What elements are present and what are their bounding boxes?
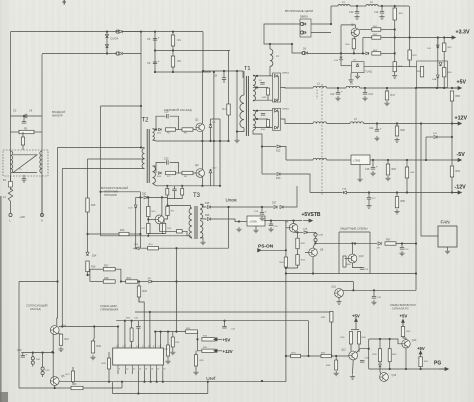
junction c11 — [381, 5, 383, 7]
svg-text:D1B: D1B — [342, 188, 347, 190]
svg-text:ФИЛЬТР: ФИЛЬТР — [52, 114, 63, 118]
junction pin2 — [160, 331, 162, 333]
wire aux left — [135, 197, 137, 248]
junction tap D — [256, 110, 258, 112]
resistor R40b — [388, 349, 391, 362]
junction 3v3 c — [443, 36, 445, 38]
svg-text:R38: R38 — [326, 365, 331, 367]
junction loop A — [140, 105, 142, 107]
svg-text:10: 10 — [126, 368, 129, 370]
wire pin13 drop — [137, 371, 139, 394]
wire q10 base — [345, 258, 349, 260]
junction r53 drop — [362, 52, 364, 54]
wire u3 gnd — [357, 73, 359, 74]
svg-text:+: + — [265, 210, 267, 214]
wire Q1 collector — [201, 71, 203, 123]
wire r62 stub — [396, 124, 398, 127]
wire rail2 right — [197, 332, 199, 340]
svg-text:Uпом: Uпом — [226, 198, 237, 203]
svg-text:15: 15 — [157, 368, 160, 370]
wire D4 row — [42, 53, 117, 55]
rectifier DBR02 box — [273, 73, 281, 102]
ground R29 — [90, 355, 95, 360]
svg-text:D22: D22 — [142, 193, 147, 196]
junction q11 base — [352, 289, 354, 291]
junction r47 — [386, 87, 388, 89]
wire match bottom — [19, 387, 71, 389]
junction bus2 drop — [137, 392, 139, 394]
svg-text:R10: R10 — [152, 211, 157, 213]
svg-text:+5V: +5V — [223, 337, 231, 342]
wire u3 out up — [410, 66, 417, 68]
transistor Q6 — [289, 224, 298, 233]
wire aux rail corner — [139, 192, 141, 248]
T1 primary winding — [240, 95, 244, 128]
svg-text:D6: D6 — [303, 48, 307, 51]
arrow -5V — [452, 158, 461, 161]
wire q3 base — [148, 218, 155, 220]
wire d28 out — [307, 231, 316, 234]
wire fuse to terminal — [10, 201, 12, 213]
capacitor C3 — [22, 122, 26, 124]
junction tap3 row — [61, 325, 63, 327]
svg-text:R1: R1 — [178, 38, 182, 42]
wire fb down — [176, 248, 178, 331]
resistor R47 — [385, 91, 388, 100]
wire d13 out — [280, 174, 310, 193]
wire q8 top — [313, 242, 316, 249]
svg-text:D2B: D2B — [303, 228, 308, 230]
ground T1 shield — [234, 138, 239, 143]
wire Q1 emitter — [201, 131, 203, 141]
wire r6b stub — [181, 186, 183, 189]
resistor R29 — [91, 341, 94, 353]
svg-text:T3: T3 — [193, 193, 201, 199]
svg-text:U3: U3 — [353, 60, 357, 62]
svg-text:R30: R30 — [200, 360, 205, 362]
wire c21b stub — [174, 186, 176, 189]
wire cap C5 branch — [154, 32, 156, 72]
wire prot out — [370, 273, 416, 275]
wire match to bus — [121, 382, 123, 388]
svg-text:D23: D23 — [129, 208, 134, 210]
wire bridge vertical — [106, 32, 108, 54]
ground 7805 in — [236, 227, 241, 232]
IC U2 7805 box — [247, 216, 265, 226]
choke T4 dashed box — [3, 150, 48, 176]
svg-text:C13: C13 — [369, 93, 374, 96]
svg-text:L2: L2 — [370, 1, 373, 4]
capacitor C9a — [260, 83, 264, 85]
svg-text:R7: R7 — [167, 176, 171, 178]
svg-text:R41: R41 — [424, 361, 429, 363]
svg-text:R39: R39 — [372, 354, 377, 356]
junction q5 down — [54, 387, 56, 389]
resistor R10 — [147, 206, 150, 216]
svg-text:+5V: +5V — [417, 346, 425, 351]
svg-text:+12V: +12V — [223, 349, 233, 354]
capacitor C1 — [22, 179, 26, 181]
resistor R49 — [352, 39, 355, 49]
wire bottom bus2 — [113, 393, 208, 395]
junction r54 right — [394, 52, 396, 54]
ground C10 — [354, 15, 359, 20]
fuse F1 — [8, 188, 12, 201]
svg-text:R18: R18 — [104, 277, 109, 280]
capacitor C28 — [269, 224, 273, 226]
wire loop to r19b — [121, 281, 126, 283]
capacitor C13 — [363, 93, 367, 95]
svg-text:+: + — [380, 127, 382, 131]
junction Q2 emitter — [201, 185, 203, 187]
capacitor C5 — [153, 39, 157, 41]
resistor R6b — [181, 189, 184, 196]
resistor R27 — [167, 345, 170, 356]
resistor R15 — [86, 198, 89, 212]
wire t3 coupling — [167, 195, 182, 199]
resistor R46s — [267, 120, 270, 128]
ground C17 — [366, 204, 371, 209]
wire Q2 emitter — [201, 177, 203, 186]
inductor L1 — [338, 5, 350, 7]
wire r17 loop2 — [89, 269, 91, 281]
diode D6 — [305, 52, 308, 55]
FAN box — [438, 226, 457, 247]
junction emitter rail a — [209, 140, 211, 142]
capacitor C7 snubber — [222, 78, 226, 80]
wire aux raw — [261, 207, 263, 212]
wire AC line top rail — [11, 31, 204, 33]
junction pin7 — [131, 320, 133, 322]
wire r5a gnd — [394, 72, 396, 74]
svg-text:T1: T1 — [244, 66, 251, 72]
junction c28 — [270, 220, 272, 222]
svg-text:FAN: FAN — [441, 220, 450, 225]
wire fan feed — [421, 124, 438, 237]
wire pson vert — [285, 274, 287, 382]
resistor R31 — [202, 349, 215, 352]
wire match feed — [19, 281, 58, 283]
wire d32 drop — [352, 282, 354, 291]
capacitor C21b — [172, 189, 176, 191]
svg-text:C28: C28 — [274, 226, 279, 228]
wire dbr02 int — [277, 76, 279, 100]
junction 12v r64 — [451, 122, 453, 124]
choke winding left — [11, 151, 13, 173]
wire cap midpoint — [155, 50, 230, 52]
wire bottom bus1 — [113, 381, 286, 383]
wire r5b stub — [166, 186, 168, 189]
diode D07 — [136, 247, 139, 250]
wire primary loop A — [101, 105, 142, 107]
wire r23 stub — [72, 367, 74, 371]
svg-text:D26: D26 — [205, 214, 210, 217]
wire c21b bot — [174, 191, 176, 199]
scan edge bottom left — [0, 392, 8, 402]
wire L4 bottom — [269, 66, 271, 76]
resistor R25 — [186, 330, 198, 333]
wire d21 row — [426, 136, 433, 138]
resistor R11 — [147, 223, 150, 233]
wire x87 bot — [87, 272, 89, 275]
junction r40b top — [389, 338, 391, 340]
junction dbr03 out — [330, 23, 332, 25]
resistor R60 — [443, 67, 446, 77]
diode DBR01 a — [275, 109, 278, 112]
junction pin3 — [154, 331, 156, 333]
svg-text:R20: R20 — [143, 290, 148, 293]
svg-text:R28: R28 — [175, 342, 180, 344]
wire drive lower2 — [176, 172, 183, 174]
IC U1 top pins — [118, 344, 161, 348]
svg-text:Q15: Q15 — [392, 374, 397, 377]
resistor R4 — [227, 104, 230, 115]
diode DBR03 a — [303, 23, 306, 26]
junction L4 top — [269, 43, 271, 45]
wire pin7 col b — [131, 341, 133, 348]
resistor R3 — [19, 130, 34, 133]
terminal D6 — [302, 51, 305, 54]
svg-text:СИГНАЛА PG: СИГНАЛА PG — [392, 306, 409, 310]
diode D16 zener — [340, 57, 343, 60]
junction aux rail — [99, 191, 101, 193]
wire sec tap B — [253, 87, 268, 89]
svg-text:R60: R60 — [448, 72, 453, 74]
wire d12 in — [262, 146, 276, 148]
wire pin7 col — [131, 321, 133, 328]
wire match box left — [18, 282, 20, 389]
wire dbr03 right — [311, 6, 331, 24]
junction r33v bot — [330, 355, 332, 357]
wire +12v rail2 — [327, 123, 350, 125]
wire r49 top — [354, 37, 355, 39]
wire C19 loop right — [170, 116, 179, 129]
resistor R30 — [195, 355, 198, 366]
diode D30 a — [31, 357, 34, 360]
junction c29 — [261, 206, 263, 208]
resistor R54 — [372, 52, 381, 55]
svg-text:Q4: Q4 — [62, 324, 66, 328]
junction q3 coll — [161, 196, 163, 198]
ground R47 — [384, 101, 389, 106]
svg-text:C16: C16 — [365, 168, 370, 171]
wire T2 tap2 — [88, 158, 145, 160]
svg-text:DBR02: DBR02 — [282, 73, 290, 75]
junction 3v3 b — [437, 36, 439, 38]
resistor R21 — [59, 334, 62, 345]
arrow +5V left — [214, 338, 222, 341]
wire AC line left rail down — [10, 32, 12, 190]
diode D4 — [119, 52, 122, 55]
junction c30 — [223, 320, 225, 322]
resistor R28 — [171, 337, 174, 347]
resistor R58 — [450, 91, 453, 101]
svg-text:R26: R26 — [126, 318, 131, 320]
resistor R52 — [372, 28, 381, 31]
junction c10 — [356, 5, 358, 7]
svg-text:R6: R6 — [184, 133, 188, 135]
svg-text:+: + — [26, 353, 28, 357]
svg-text:L4: L4 — [350, 83, 353, 86]
terminal L — [9, 213, 12, 216]
junction match feed — [56, 280, 58, 282]
junction prot c22 — [401, 242, 403, 244]
T1 secondary upper — [253, 75, 256, 101]
resistor R44 — [296, 255, 299, 266]
junction bridge top — [106, 31, 108, 33]
wire +12v rail — [290, 123, 313, 125]
wire q10 emitter — [353, 263, 363, 268]
resistor R19 — [103, 280, 115, 283]
svg-text:СОГЛАСУЮЩИЙ: СОГЛАСУЮЩИЙ — [26, 304, 47, 308]
wire r9 r12 link — [164, 216, 167, 224]
svg-text:PG: PG — [434, 361, 441, 367]
svg-text:R67: R67 — [386, 239, 391, 242]
svg-text:R50: R50 — [399, 13, 404, 15]
wire d21 stub — [425, 137, 427, 160]
wire prot box left — [338, 232, 340, 274]
resistor R16 — [86, 261, 89, 272]
wire prot box right — [369, 232, 371, 274]
wire aux bottom drop — [147, 234, 149, 236]
resistor R64 — [450, 166, 453, 177]
ground R62 — [394, 138, 399, 143]
wire r58 down — [451, 101, 453, 124]
svg-text:D21: D21 — [433, 133, 438, 135]
wire pin6 col — [137, 321, 139, 327]
diode D06 — [159, 172, 162, 175]
wire r20 down — [138, 297, 140, 302]
capacitor C12 — [336, 93, 340, 95]
wire d31 tail — [42, 375, 44, 377]
wire 7805 in — [239, 221, 247, 223]
diode D4A zener — [436, 75, 439, 78]
diode D27b — [280, 206, 283, 209]
junction r66b — [108, 381, 110, 383]
ground C28 — [268, 227, 273, 232]
rectifier DBR03 box — [300, 19, 311, 37]
svg-text:КАСКАД: КАСКАД — [30, 307, 41, 311]
wire d13 in — [262, 173, 276, 175]
svg-text:C32: C32 — [377, 297, 382, 299]
wire d30 link — [32, 360, 34, 361]
svg-text:R8: R8 — [184, 176, 188, 178]
svg-text:R9: R9 — [171, 211, 175, 213]
wire 7805 out — [264, 220, 303, 222]
junction aux d22 — [139, 196, 141, 198]
wire 3v3 rail2 — [350, 5, 366, 7]
wire T2 tap3 — [62, 168, 144, 170]
junction filter caps — [23, 115, 25, 117]
diode D05 — [159, 128, 162, 131]
wire D6 branch — [292, 44, 303, 53]
junction tap E — [256, 118, 258, 120]
junction r27 — [167, 331, 169, 333]
resistor R48s — [267, 88, 270, 95]
wire -12v rail2 — [347, 192, 459, 194]
junction center tap — [227, 140, 229, 142]
capacitor C22 — [400, 248, 404, 250]
wire r44 link — [297, 249, 299, 255]
svg-text:C29: C29 — [254, 211, 259, 213]
svg-text:C12: C12 — [330, 93, 335, 96]
wire r10 top — [147, 197, 149, 206]
wire q4 collector down — [340, 25, 342, 66]
wire +5v rail2 — [327, 87, 346, 89]
svg-text:DBR03: DBR03 — [300, 16, 308, 19]
wire d31 link — [42, 370, 44, 371]
transistor Q2 — [196, 169, 205, 178]
choke core dashed b — [316, 90, 318, 100]
diode D29 — [378, 242, 381, 245]
wire pin6 col b — [137, 328, 139, 348]
junction q10 up — [351, 242, 353, 244]
junction 5v a — [436, 87, 438, 89]
wire C1 stub top — [23, 175, 25, 179]
resistor R50 — [393, 8, 396, 20]
diode D10 — [209, 170, 212, 173]
junction Q1 collector — [202, 70, 204, 72]
wire q6 top — [293, 221, 295, 224]
junction r63 — [387, 159, 389, 161]
wire r53 left — [363, 37, 372, 39]
wire d33 link — [379, 362, 381, 364]
transistor Q11 — [335, 289, 344, 298]
IC U1 top pin numbers — [116, 346, 161, 348]
junction C6 bottom — [154, 71, 156, 73]
junction q6 chain — [296, 231, 298, 233]
terminal diode D3 anode — [116, 30, 119, 33]
ground R5A — [392, 74, 397, 79]
wire zener column — [210, 119, 212, 141]
svg-text:L7905: L7905 — [353, 159, 361, 163]
arrow +3.3V — [446, 36, 455, 39]
svg-text:D04: D04 — [134, 244, 139, 246]
wire prot row2 — [396, 243, 416, 245]
wire pin3 col — [154, 332, 156, 348]
arrow +5VSTB — [303, 219, 312, 222]
wire T2 primary bottom — [144, 162, 146, 164]
wire prot box top — [339, 231, 370, 233]
IC U5 7905 box — [351, 155, 370, 165]
wire d4a feed — [437, 38, 439, 75]
arrow PG — [439, 367, 448, 370]
wire r2b bot — [22, 145, 24, 150]
wire d12 out — [280, 147, 286, 161]
wire pwm top rail — [116, 320, 308, 322]
junction match bus — [121, 381, 123, 383]
svg-text:R46: R46 — [347, 264, 352, 266]
wire c10 stub — [356, 6, 358, 11]
resistor R14 — [148, 247, 159, 250]
wire c22 stub — [401, 244, 403, 248]
wire q3 emitter — [160, 224, 177, 232]
wire sec tap E — [253, 118, 268, 120]
wire d32 right — [152, 281, 353, 283]
wire c17 bot — [368, 199, 370, 203]
wire c13 stub — [364, 88, 366, 92]
svg-text:D13: D13 — [276, 177, 281, 180]
diode DBR02 b — [275, 99, 278, 102]
junction upom — [227, 206, 229, 208]
resistor R64b — [405, 167, 408, 178]
wire 5vc down — [355, 326, 357, 330]
junction T1 return — [236, 130, 238, 132]
wire sec tap D — [253, 110, 273, 112]
wire r33v down — [330, 322, 332, 356]
junction pri top — [166, 204, 168, 206]
wire r53 drop — [362, 38, 364, 54]
